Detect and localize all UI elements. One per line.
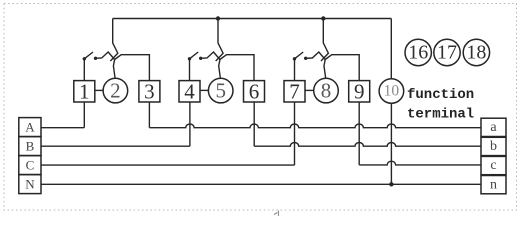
box A: [19, 118, 41, 137]
wire: row A (box A to terminal 1): [41, 127, 84, 129]
terminal T6 (square 6): [244, 81, 265, 102]
svg-text:1: 1: [79, 79, 90, 103]
terminal T3 (square 3): [139, 81, 160, 102]
svg-text:5: 5: [215, 79, 226, 103]
wire: link junction down to terminal 5: [219, 60, 221, 79]
wire: link junction down to terminal 2: [113, 60, 115, 79]
wire: terminal 10 down to neutral row: [390, 103, 392, 184]
wire: link lower hook phase 3: [306, 52, 326, 60]
wire: link lower hook phase 2: [201, 52, 220, 60]
box c: [481, 156, 506, 174]
wire: link junction to terminal 6: [220, 55, 254, 81]
wire: terminal 9 down to row c: [358, 102, 360, 165]
wire: link junction to terminal 3: [115, 55, 150, 81]
wire: contact dot down to terminal 1: [83, 59, 85, 81]
svg-text:4: 4: [184, 79, 195, 103]
terminal T4 (square 4): [179, 81, 200, 102]
terminal T2 (circle 2): [103, 78, 128, 103]
wire: terminal 7 down to row C: [294, 102, 296, 165]
switch contact dot (right) phase 2: [199, 57, 202, 60]
junction: terminal 10 tap on neutral row: [389, 182, 393, 186]
svg-text:9: 9: [354, 79, 365, 103]
wire: link lower hook phase 1: [96, 52, 115, 60]
box b: [481, 137, 506, 155]
wire: row b (terminal 6 to box b, hops): [254, 142, 481, 146]
wire: row B (box B to terminal 4): [41, 145, 190, 147]
wire: stub terminal 1 to terminal 2: [95, 89, 103, 91]
wire: contact dot down to terminal 4: [189, 59, 191, 81]
wire: top phase bus: [113, 18, 392, 20]
box n: [481, 176, 506, 194]
terminal T7 (square 7): [284, 81, 305, 102]
box B: [19, 137, 41, 156]
wire: link junction down to terminal 8: [324, 60, 326, 79]
svg-text:8: 8: [321, 79, 332, 103]
svg-text:10: 10: [384, 83, 400, 100]
svg-text:N: N: [25, 176, 35, 191]
switch contact dot (right) phase 3: [304, 57, 307, 60]
wire: supply drop from bus to voltage link, phase 1: [110, 19, 117, 62]
wire: row a (terminal 3 to box a, hops): [149, 124, 481, 128]
wire: terminal 3 down to row a: [148, 102, 150, 128]
svg-text:a: a: [490, 120, 497, 135]
box N: [19, 175, 41, 194]
switch contact dot (right) phase 1: [94, 57, 97, 60]
small cursor tick below bottom border: [274, 211, 279, 217]
switch contact dot (left) phase 3: [293, 57, 296, 60]
terminal T16 (circle 16): [405, 39, 431, 65]
terminal T9 (square 9): [349, 81, 370, 102]
wire: stub terminal 4 to terminal 5: [200, 89, 208, 91]
wire: row C (box C to terminal 7): [41, 164, 295, 166]
svg-text:function: function: [407, 87, 474, 103]
svg-text:B: B: [26, 138, 35, 153]
junction on bus above phase-2 link: [216, 16, 220, 20]
terminal T10 (circle 10): [379, 79, 404, 104]
svg-text:C: C: [26, 157, 35, 172]
svg-text:c: c: [490, 158, 496, 173]
svg-text:2: 2: [110, 79, 121, 103]
wire: contact dot down to terminal 7: [294, 59, 296, 81]
svg-text:3: 3: [144, 79, 155, 103]
junction on bus above phase-3 link: [321, 16, 325, 20]
open switch blade phase 1: [84, 52, 93, 59]
svg-text:18: 18: [466, 42, 486, 64]
switch contact dot (left) phase 1: [83, 57, 86, 60]
wire: terminal 4 down to row B: [189, 102, 191, 146]
open switch blade phase 2: [190, 52, 199, 59]
svg-text:A: A: [25, 119, 35, 134]
svg-text:7: 7: [289, 79, 300, 103]
wire: stub terminal 7 to terminal 8: [305, 89, 314, 91]
terminal T17 (circle 17): [434, 39, 460, 65]
svg-text:terminal: terminal: [407, 107, 474, 123]
svg-text:17: 17: [437, 42, 457, 64]
svg-text:16: 16: [408, 42, 428, 64]
terminal T8 (circle 8): [314, 78, 339, 103]
wire: terminal 1 down to row A: [83, 102, 85, 128]
wire: terminal 6 down to row b: [253, 102, 255, 146]
svg-text:6: 6: [249, 79, 260, 103]
switch contact dot (left) phase 2: [188, 57, 191, 60]
svg-text:n: n: [490, 177, 497, 192]
terminal T1 (square 1): [74, 81, 95, 102]
terminal T5 (circle 5): [208, 78, 233, 103]
svg-text:b: b: [490, 139, 497, 154]
box C: [19, 156, 41, 175]
wire: row N-n (box N to box n): [41, 183, 481, 185]
wire: link junction to terminal 9: [325, 55, 359, 81]
box a: [481, 118, 506, 136]
wire: row c (terminal 9 to box c, hop): [359, 161, 481, 165]
wire: supply drop from bus to voltage link, phase 2: [216, 19, 223, 62]
wire: bus right end down to terminal 10: [390, 19, 392, 79]
open switch blade phase 3: [295, 52, 304, 59]
wire: supply drop from bus to voltage link, phase 3: [321, 19, 328, 62]
terminal T18 (circle 18): [463, 39, 489, 65]
